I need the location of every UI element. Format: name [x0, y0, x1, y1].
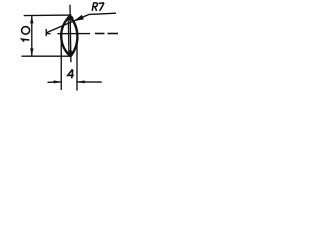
dim4 right extension line: [76, 42, 78, 91]
arc center tick: [45, 29, 47, 36]
dim10 top extension line: [24, 14, 72, 17]
apex ink blob: [67, 16, 74, 21]
dim10 arrow down: [30, 48, 33, 56]
dim4 right arrow: [77, 80, 85, 83]
dim4 right tail: [77, 81, 102, 83]
lens outline right arc R7: [70, 16, 77, 56]
paper background: [0, 0, 146, 96]
label R7 letter R: [92, 3, 97, 11]
horizontal centerline segment B: [58, 33, 91, 35]
inner seam line: [67, 21, 70, 53]
vertex ink blob: [68, 50, 73, 57]
dim10 dimension line: [31, 16, 33, 56]
label R7 underline: [89, 13, 116, 14]
dim4 left tail: [48, 81, 62, 83]
horizontal centerline segment A: [46, 33, 50, 35]
dim10 text rotated: [22, 27, 30, 42]
label R7 digit 7: [99, 3, 104, 11]
horizontal centerline dash D: [108, 33, 119, 35]
dim10 arrow up: [30, 16, 33, 24]
lens outline left arc R7: [61, 16, 70, 56]
radius leader line R7: [46, 14, 89, 33]
radius leader arrowhead: [74, 15, 84, 21]
dim4 left extension line: [60, 40, 62, 90]
horizontal centerline dash C: [95, 33, 105, 35]
vertical centerline: [69, 5, 72, 63]
dim4 text: [68, 69, 74, 78]
dim4 left arrow: [54, 80, 62, 83]
dim10 bottom extension line: [22, 55, 71, 57]
